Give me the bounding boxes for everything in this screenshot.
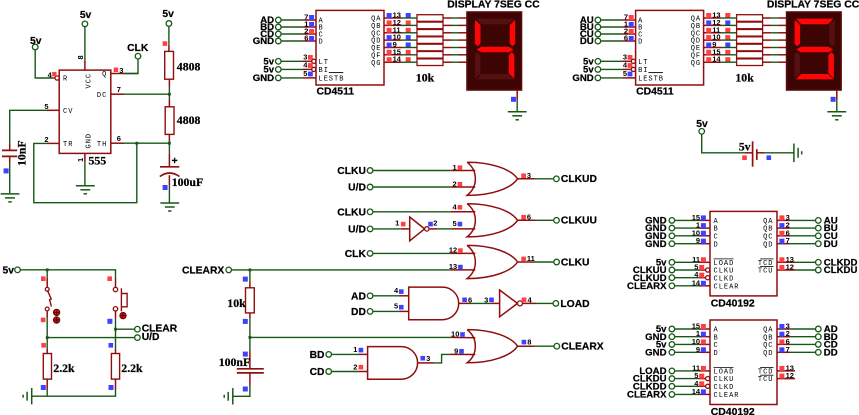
CD4511 control pins 3,4,5 (LT,BI bubbles) [303, 52, 317, 78]
or-gate U9 (CLEARX) [450, 330, 535, 363]
svg-text:DISPLAY 7SEG CC: DISPLAY 7SEG CC [767, 0, 859, 11]
wire Q/DC net to resistor divider [124, 74, 171, 96]
svg-text:CLKD: CLKD [714, 275, 735, 283]
svg-text:3: 3 [426, 354, 430, 363]
wire 5v to R1 [163, 27, 169, 46]
svg-text:CLKD: CLKD [714, 384, 735, 392]
terminal BD (gate6 A) [310, 350, 332, 361]
wires inputs to CD4511 [282, 20, 303, 41]
wire AND1 to buffer [470, 302, 490, 304]
terminal DD (gate4 B) [351, 307, 373, 318]
and-gate U6 (LOAD) [394, 286, 472, 320]
power terminal 5v (R input) [30, 36, 42, 50]
svg-text:4: 4 [453, 202, 458, 211]
wires outputs to terminals [790, 329, 815, 352]
wire BD to AND2 pin 1 [332, 353, 359, 355]
resistor R7 10k [227, 270, 254, 324]
ground (555) [76, 186, 95, 194]
wire OR1 output [535, 178, 554, 180]
svg-text:2: 2 [433, 218, 437, 227]
svg-text:BI: BI [319, 67, 329, 75]
wire 100nF to ground [233, 385, 250, 396]
ground (C1) [1, 194, 20, 202]
svg-text:14: 14 [692, 278, 701, 287]
svg-text:VCC: VCC [85, 73, 93, 89]
wire DD to AND1 pin 5 [373, 310, 399, 312]
display label DISPLAY 7SEG CC [767, 0, 859, 11]
CD40192 data pins 15,1,10,9 [692, 213, 710, 245]
terminal CLKU (gate2 A) [337, 207, 373, 218]
wire SW1 to U/D node [41, 317, 48, 348]
svg-text:6: 6 [117, 134, 121, 143]
counter U12 control terminals [627, 257, 675, 292]
svg-text:CLEARX: CLEARX [182, 266, 224, 277]
svg-text:Q: Q [102, 71, 107, 79]
terminal CLEARX (output) [554, 342, 604, 353]
svg-text:TCU: TCU [758, 268, 774, 276]
svg-text:5v: 5v [162, 9, 174, 20]
555 pin R (4) with bubble [48, 70, 69, 83]
svg-text:9: 9 [696, 236, 700, 245]
terminal CLKUD [554, 174, 597, 185]
svg-text:CLEARX: CLEARX [627, 390, 667, 401]
wire AD to AND1 pin 4 [373, 295, 399, 297]
wire CLK to 555 Q pin [124, 59, 138, 73]
power terminal 5v (555 VCC) [80, 10, 92, 27]
svg-text:CLKUD: CLKUD [561, 174, 597, 185]
power terminal 5v (divider top) [162, 9, 174, 26]
svg-text:D: D [638, 39, 643, 47]
terminal U/D (gate1 B) [348, 183, 373, 194]
terminal CD (gate6 B) [310, 367, 332, 378]
svg-text:5v: 5v [80, 10, 92, 21]
svg-text:CD4511: CD4511 [317, 87, 355, 98]
svg-text:5v: 5v [3, 266, 15, 277]
wire AND2 to OR4 pin 9 [434, 354, 450, 363]
capacitor C1 10nF [2, 140, 29, 173]
CD40192 data pins 15,1,10,9 [692, 322, 710, 354]
555 pin VCC (8) [76, 55, 93, 88]
and-gate U8 (BD.CD) [353, 345, 433, 379]
svg-text:R: R [63, 76, 68, 84]
svg-text:BD: BD [310, 350, 325, 361]
terminal LOAD [553, 299, 590, 310]
svg-text:LE: LE [319, 76, 329, 84]
svg-text:CD: CD [310, 367, 325, 378]
CD40192 carry/borrow pins 13,12 [777, 255, 795, 272]
CD4511 output pins 13,12,11,10,9,15,14 [704, 11, 731, 64]
power terminal 5v (switches) [3, 266, 21, 277]
svg-text:TH: TH [97, 141, 107, 149]
wires inputs to CD4511 [601, 20, 622, 41]
svg-text:GND: GND [85, 133, 93, 149]
svg-text:5: 5 [394, 302, 398, 311]
svg-text:STB: STB [329, 76, 345, 84]
svg-text:1: 1 [395, 218, 399, 227]
wire inverter to OR2 pin 5 [437, 228, 452, 230]
svg-text:LOAD: LOAD [560, 299, 589, 310]
svg-text:12: 12 [786, 371, 794, 380]
counter U13 input terminals [645, 324, 675, 358]
svg-text:14: 14 [393, 55, 402, 64]
wire OR2 output [535, 219, 554, 221]
wire CLEARX to OR gate pin 13 [232, 269, 450, 272]
display common pin to ground [831, 90, 837, 112]
svg-text:9: 9 [454, 346, 458, 355]
svg-text:LT: LT [319, 59, 329, 67]
svg-text:QC: QC [763, 342, 773, 350]
wire OR4 output [535, 345, 554, 347]
svg-text:14: 14 [692, 387, 701, 396]
4511 input terminals (AD..GND) [253, 15, 281, 47]
svg-text:TCU: TCU [758, 376, 774, 384]
wire rail drop to switch SW1 [41, 270, 47, 281]
svg-text:6: 6 [304, 34, 308, 43]
svg-text:DD: DD [351, 307, 366, 318]
svg-text:U/D: U/D [348, 183, 366, 194]
svg-text:QG: QG [691, 60, 701, 68]
svg-text:QC: QC [763, 233, 773, 241]
svg-text:AD: AD [351, 291, 366, 302]
terminal CLEARX (input) [182, 266, 232, 277]
svg-text:CLEARX: CLEARX [561, 342, 603, 353]
svg-text:STB: STB [648, 76, 664, 84]
svg-text:CLKDU: CLKDU [824, 265, 858, 276]
wire OR3 output [535, 261, 554, 263]
svg-text:7: 7 [786, 236, 790, 245]
svg-text:GND: GND [253, 73, 274, 84]
svg-text:4808: 4808 [177, 113, 201, 127]
555 pin TH (6) [97, 134, 124, 149]
svg-text:DD: DD [824, 347, 838, 358]
CD4511 control pins 3,4,5 (LT,BI bubbles) [622, 52, 636, 78]
svg-text:7: 7 [117, 85, 121, 94]
terminal CLEAR [116, 324, 178, 335]
wires outputs to terminals [790, 220, 815, 243]
counter U12 output terminals [816, 216, 838, 250]
wires controls to CD4511 [601, 61, 622, 78]
svg-text:2.2k: 2.2k [53, 361, 75, 375]
svg-text:+: + [172, 156, 178, 167]
555 pin TR (2) [44, 135, 73, 149]
svg-text:10k: 10k [735, 71, 754, 85]
CD40192 control pins 11,5,4,14 (CLK bubbles) [692, 255, 710, 288]
svg-text:D: D [714, 350, 719, 358]
svg-text:DC: DC [97, 92, 107, 100]
svg-text:3: 3 [527, 171, 531, 180]
svg-text:5: 5 [623, 69, 627, 78]
terminal CLKUU [554, 216, 597, 227]
svg-text:5v: 5v [739, 140, 751, 154]
svg-text:CD4511: CD4511 [636, 87, 674, 98]
svg-text:GND: GND [572, 73, 593, 84]
svg-text:DU: DU [824, 239, 838, 250]
svg-text:5: 5 [303, 69, 307, 78]
capacitor C3 100nF [219, 351, 264, 392]
terminal CLK [127, 43, 149, 59]
CD4511 output pins 13,12,11,10,9,15,14 [384, 11, 411, 64]
svg-text:CLKU: CLKU [337, 166, 366, 177]
svg-text:2: 2 [353, 362, 357, 371]
svg-text:U/D: U/D [142, 332, 160, 343]
svg-text:8: 8 [527, 338, 531, 347]
capacitor C2 100uF polarized [160, 153, 203, 190]
counter U12 carry terminals [816, 257, 858, 276]
svg-text:LT: LT [638, 59, 648, 67]
ground (100nF) [224, 388, 233, 404]
svg-text:5: 5 [44, 102, 48, 111]
svg-text:1: 1 [453, 163, 457, 172]
ground (display) [827, 112, 846, 120]
7-segment display (digit 4) [467, 12, 522, 90]
CD40192 output pins 3,2,6,7 [777, 322, 790, 354]
wire CD to AND2 pin 2 [332, 371, 359, 373]
wire 10k to 100nF node [249, 319, 252, 351]
terminal CLKU (gate1 A) [337, 166, 373, 177]
display common pin to ground [511, 90, 517, 112]
svg-text:DISPLAY 7SEG CC: DISPLAY 7SEG CC [447, 0, 540, 11]
svg-text:U/D: U/D [348, 225, 366, 236]
wire R5 to ground rail [46, 390, 48, 397]
wire U/D to inverter [373, 228, 400, 230]
svg-text:CLKU: CLKU [337, 207, 366, 218]
resistor pack RN 10k (7 resistors) [722, 15, 787, 85]
switch SW2 (CLEAR pushbutton) [107, 278, 127, 324]
CD40192 control pins 11,5,4,14 (CLK bubbles) [692, 363, 710, 396]
inverter U7 (LOAD driver) [484, 290, 536, 317]
wire ground rail (switches) [32, 390, 116, 397]
svg-text:QD: QD [763, 350, 773, 358]
wires data inputs to CD40192 [675, 220, 699, 243]
counter U13 output terminals [816, 324, 838, 358]
wire R2 to capacitor C2 [168, 141, 170, 153]
wire CV to capacitor C1 [10, 110, 47, 143]
decoder U11 CD4511 body [636, 10, 704, 97]
wire node to OR gate pin 10 [250, 336, 450, 338]
svg-text:1: 1 [353, 345, 357, 354]
terminal U/D [47, 332, 159, 343]
wire TR to TH feedback loop [34, 143, 137, 203]
counter U13 control terminals [627, 366, 675, 401]
svg-text:13: 13 [449, 262, 457, 271]
wire C1 to ground [9, 163, 11, 194]
svg-text:CLKU: CLKU [561, 257, 590, 268]
svg-text:5v: 5v [30, 36, 42, 47]
ground (battery, sideways) [794, 144, 802, 163]
resistor R6 2.2k [109, 348, 144, 390]
wires data inputs to CD40192 [675, 329, 699, 352]
svg-text:C: C [714, 233, 719, 241]
svg-text:1: 1 [76, 158, 85, 162]
svg-text:CLEARX: CLEARX [627, 281, 667, 292]
wire 555 GND to ground [84, 162, 86, 186]
7-segment display (digit 5) [787, 12, 842, 90]
wire buffer to LOAD [536, 302, 553, 304]
counter U12 CD40192 body [710, 211, 777, 309]
wire SW2 to CLEAR node [109, 318, 117, 348]
svg-text:14: 14 [712, 55, 721, 64]
terminal U/D (inverter in) [348, 225, 373, 236]
decoder U10 CD4511 body [316, 10, 384, 97]
svg-text:100nF: 100nF [219, 355, 250, 369]
ground (switch rail) [23, 388, 32, 404]
inverter U3 (U/D) [395, 217, 437, 241]
svg-text:7: 7 [786, 345, 790, 354]
svg-text:100uF: 100uF [172, 175, 203, 189]
svg-text:CLK: CLK [345, 249, 367, 260]
svg-text:D: D [714, 241, 719, 249]
svg-text:4: 4 [394, 286, 399, 295]
svg-text:CLEAR: CLEAR [714, 283, 740, 291]
svg-text:10: 10 [451, 330, 459, 339]
svg-text:5: 5 [453, 219, 457, 228]
svg-text:6: 6 [624, 34, 628, 43]
wire TH net [124, 142, 171, 145]
resistor R5 2.2k [41, 348, 75, 390]
svg-text:QG: QG [371, 60, 381, 68]
resistor pack RN 10k (7 resistors) [402, 15, 467, 85]
svg-text:10k: 10k [416, 71, 435, 85]
CD4511 input pins 7,1,2,6 [303, 13, 317, 43]
svg-text:LE: LE [638, 76, 648, 84]
CD40192 carry/borrow pins 13,12 [777, 363, 795, 380]
svg-text:2: 2 [44, 135, 48, 144]
svg-text:GND: GND [253, 36, 274, 47]
wire CLKU to OR2 pin 4 [373, 211, 450, 213]
svg-text:10k: 10k [227, 296, 246, 310]
terminal CLK (gate3 A) [345, 249, 373, 260]
wires carry/borrow to terminals [795, 262, 815, 270]
svg-text:4808: 4808 [177, 60, 201, 74]
wire R1 to R2 [168, 87, 170, 100]
counter U12 input terminals [645, 216, 675, 250]
wire battery to ground [764, 152, 794, 154]
555 pin Q (3) [102, 66, 124, 79]
svg-text:D: D [319, 39, 324, 47]
wire 5v to 555 VCC [84, 27, 86, 61]
svg-text:DU: DU [580, 36, 594, 47]
ground (display) [508, 112, 527, 120]
svg-text:12: 12 [786, 263, 794, 272]
wire U/D to OR1 pin 2 [373, 186, 450, 188]
4511 input terminals (AU..DU) [580, 15, 601, 47]
svg-text:CD40192: CD40192 [711, 299, 755, 310]
power terminal 5v (battery) [696, 119, 708, 134]
display label DISPLAY 7SEG CC [447, 0, 540, 11]
555 pin GND (1) [76, 133, 93, 162]
resistor R2 4808 [165, 100, 200, 141]
svg-text:CLKUU: CLKUU [561, 216, 597, 227]
svg-text:GND: GND [645, 347, 666, 358]
svg-text:TR: TR [63, 141, 73, 149]
wire rail drop to switch SW2 [107, 276, 112, 281]
svg-text:QD: QD [763, 241, 773, 249]
svg-text:6: 6 [527, 212, 531, 221]
wires controls to CD4511 [282, 61, 303, 78]
svg-text:2.2k: 2.2k [121, 361, 143, 375]
555 pin CV (5) [44, 102, 73, 116]
svg-text:GND: GND [645, 239, 666, 250]
wire 5v to battery [702, 135, 745, 153]
resistor R1 4808 [165, 45, 201, 87]
svg-text:C: C [714, 342, 719, 350]
CD4511 input pins 7,1,2,6 [622, 13, 636, 43]
555 pin DC (7) [97, 85, 124, 100]
wire CLKU to OR1 pin 1 [373, 170, 450, 172]
CD40192 output pins 3,2,6,7 [777, 213, 790, 245]
svg-text:10nF: 10nF [15, 140, 29, 166]
wire C2 to ground [168, 185, 170, 204]
wire CLK to OR3 pin 12 [373, 252, 450, 254]
4511 control terminals (5v,5v,GND) [572, 56, 600, 84]
4511 control terminals (5v,5v,GND) [253, 56, 281, 84]
wire 5v rail to switches [21, 268, 116, 277]
svg-text:CLK: CLK [127, 43, 149, 54]
wires controls to CD40192 [675, 262, 699, 286]
svg-text:CV: CV [63, 108, 73, 116]
switch SW1 (U/D toggle) [41, 278, 60, 324]
svg-text:3: 3 [119, 66, 123, 75]
svg-text:BI: BI [638, 67, 648, 75]
or-gate U5 (CLKU) [449, 245, 535, 278]
svg-text:CD40192: CD40192 [711, 407, 755, 415]
or-gate U4 (CLKUU) [450, 202, 534, 237]
svg-text:CLEAR: CLEAR [714, 392, 740, 400]
svg-text:9: 9 [696, 345, 700, 354]
svg-text:11: 11 [527, 254, 535, 263]
svg-text:8: 8 [76, 55, 85, 59]
or-gate U2 (CLKUD) [450, 162, 534, 195]
svg-text:3: 3 [484, 295, 488, 304]
ground (C2) [160, 203, 179, 211]
terminal AD (gate4 A) [351, 291, 373, 302]
svg-text:2: 2 [453, 179, 457, 188]
counter U13 CD40192 body [710, 320, 777, 415]
terminal CLKU (output) [554, 257, 590, 268]
wires controls to CD40192 [675, 371, 699, 395]
svg-text:12: 12 [449, 246, 457, 255]
battery BT1 5v [739, 140, 771, 167]
svg-text:555: 555 [89, 154, 107, 168]
op-amp U1 555 timer body [59, 70, 111, 167]
wire 5v to 555 R pin [35, 50, 53, 78]
